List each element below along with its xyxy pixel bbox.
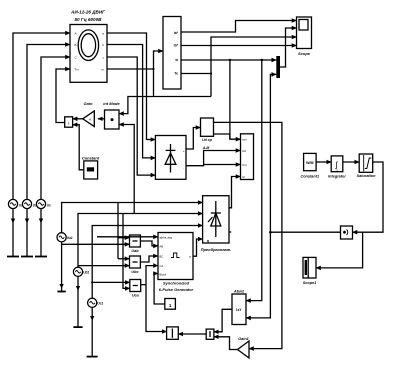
svg-text:Ua1: Ua1 bbox=[67, 236, 73, 240]
svg-text:Icm: Icm bbox=[242, 138, 247, 142]
svg-text:-K: -K bbox=[89, 117, 92, 121]
svg-text:Gain1: Gain1 bbox=[238, 337, 249, 341]
svg-text:6-Pulse Generator: 6-Pulse Generator bbox=[159, 287, 194, 292]
svg-text:=: = bbox=[336, 168, 338, 172]
svg-text:+: + bbox=[183, 149, 185, 153]
svg-text:Block: Block bbox=[160, 273, 167, 277]
svg-text:Te: Te bbox=[174, 72, 178, 76]
svg-text:Scope: Scope bbox=[298, 51, 311, 56]
svg-text:Ua: Ua bbox=[19, 204, 23, 208]
svg-text:AB: AB bbox=[160, 244, 164, 248]
svg-text:Scope1: Scope1 bbox=[303, 281, 317, 285]
svg-text:Uc1: Uc1 bbox=[97, 301, 103, 305]
svg-text:ia*: ia* bbox=[174, 31, 179, 35]
svg-text:1sY: 1sY bbox=[236, 308, 243, 312]
svg-text:Synchronized: Synchronized bbox=[163, 281, 190, 286]
svg-text:Ud cp: Ud cp bbox=[202, 138, 213, 142]
svg-text:Преобразоват.: Преобразоват. bbox=[201, 247, 232, 252]
svg-text:Atan2: Atan2 bbox=[233, 290, 244, 294]
svg-text:CA: CA bbox=[160, 264, 164, 268]
svg-text:Ic2: Ic2 bbox=[242, 149, 246, 153]
svg-text:g: g bbox=[207, 239, 209, 243]
svg-text:Uca: Uca bbox=[132, 294, 139, 298]
svg-text:Uab: Uab bbox=[131, 249, 139, 253]
svg-text:P: P bbox=[189, 255, 191, 259]
svg-text:ib*: ib* bbox=[174, 44, 179, 48]
svg-text:Gain: Gain bbox=[84, 101, 93, 106]
svg-text:Ubc: Ubc bbox=[131, 270, 139, 274]
svg-text:Ub: Ub bbox=[33, 204, 37, 208]
svg-text:A: A bbox=[75, 32, 77, 36]
svg-text:Saturation: Saturation bbox=[357, 174, 376, 178]
svg-text:Ub1: Ub1 bbox=[83, 270, 89, 274]
svg-text:alpha_deg: alpha_deg bbox=[160, 235, 173, 239]
svg-text:Tm: Tm bbox=[75, 68, 80, 72]
svg-text:BC: BC bbox=[160, 254, 164, 258]
svg-text:Id: Id bbox=[242, 175, 245, 179]
svg-text:Uc: Uc bbox=[47, 204, 51, 208]
svg-text:АИ-12-26 ДВИГ: АИ-12-26 ДВИГ bbox=[70, 10, 105, 15]
svg-text:Vm: Vm bbox=[242, 163, 247, 167]
svg-text:int Mode: int Mode bbox=[103, 101, 120, 106]
svg-text:Constant: Constant bbox=[82, 156, 100, 161]
svg-text:Constant1: Constant1 bbox=[301, 174, 320, 178]
svg-text:50 Гц 6000В: 50 Гц 6000В bbox=[75, 17, 103, 22]
svg-text:-: - bbox=[183, 167, 184, 171]
svg-text:W/M: W/M bbox=[306, 161, 313, 165]
svg-text:1: 1 bbox=[169, 303, 172, 308]
svg-text:Integrator: Integrator bbox=[328, 174, 346, 178]
svg-text:A-M: A-M bbox=[202, 146, 210, 150]
svg-text:w: w bbox=[174, 58, 178, 62]
svg-text:B: B bbox=[75, 43, 77, 47]
